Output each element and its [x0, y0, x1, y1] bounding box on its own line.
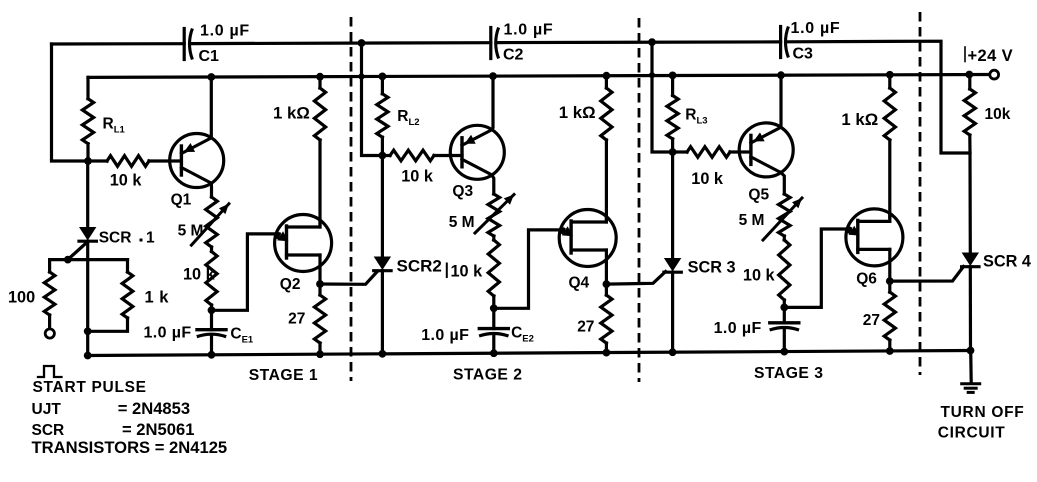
resistor 1k stage 2 [605, 76, 608, 88]
svg-text:27: 27 [577, 319, 594, 336]
svg-text:STAGE 1: STAGE 1 [249, 367, 318, 384]
svg-text:RL2: RL2 [397, 108, 419, 128]
label +24 V [964, 47, 966, 62]
svg-text:C3: C3 [793, 45, 814, 62]
resistor 10k emitter stage 3 [783, 236, 786, 240]
node Q1 base junction [84, 157, 92, 165]
resistor 1k gate stage 1 [126, 260, 129, 272]
svg-text:1 kΩ: 1 kΩ [841, 110, 878, 129]
node emitter RC junction stage 2 [490, 304, 498, 312]
wire SCR2 anode descender [362, 43, 381, 156]
wire crossover blob stage2 [358, 73, 364, 79]
transistor Q3 (PNP 2N4125) [450, 125, 504, 179]
svg-text:SCR2: SCR2 [397, 257, 442, 276]
wire Q5 emitter to rail [779, 75, 782, 127]
wire Q2 B1 to SCR2 gate [320, 272, 377, 285]
wire Q4 B1 to SCR3 gate [606, 272, 665, 285]
SCR 4 (turn-off) [962, 253, 979, 267]
wire SCR4 anode [968, 153, 971, 253]
resistor 10k emitter stage 1 [210, 247, 213, 252]
svg-text:5 M: 5 M [739, 212, 765, 229]
capacitor C2 [489, 28, 492, 59]
wire main +24V rail [88, 75, 990, 78]
potentiometer 5M arrow stage 3 [763, 198, 802, 240]
potentiometer 5M stage 1 [206, 197, 218, 247]
wire Q1 emitter to rail [210, 77, 213, 138]
svg-text:Q6: Q6 [856, 271, 877, 288]
wire to Q4 emitter [494, 230, 564, 308]
node emitter RC junction stage 3 [780, 304, 788, 312]
svg-text:27: 27 [863, 312, 880, 329]
svg-text:SCR: SCR [32, 422, 65, 439]
potentiometer 5M arrow stage 1 [191, 204, 229, 245]
node emitter RC junction stage 1 [208, 306, 216, 314]
node Q6 B1 junction [886, 277, 894, 285]
svg-text:Q1: Q1 [171, 191, 192, 208]
node Q1 emitter rail junction [207, 73, 215, 81]
resistor 27 stage 1 [318, 284, 321, 295]
svg-text:1.0 µF: 1.0 µF [714, 320, 762, 337]
svg-text:1 kΩ: 1 kΩ [559, 103, 596, 122]
wire SCR3 anode descender [652, 42, 670, 152]
node 10k rail junction turn-off [965, 71, 973, 79]
svg-text:10 k: 10 k [451, 262, 484, 280]
wire left vertical from top line to Q1 base node [52, 44, 87, 161]
svg-text:1 kΩ: 1 kΩ [273, 103, 310, 122]
capacitor CE1 [210, 310, 213, 329]
svg-text:SCR 3: SCR 3 [688, 258, 736, 276]
wire to Q2 emitter [212, 234, 280, 310]
node Q3 base junction [379, 152, 387, 160]
node 27 bottom rail junction stage 1 [316, 350, 324, 358]
node CE3 bottom rail junction [780, 348, 788, 356]
transistor Q1 (PNP 2N4125) [170, 134, 224, 188]
node 27 bottom rail junction stage 2 [603, 349, 611, 357]
terminal +24V open circle [990, 70, 999, 79]
svg-text:10 k: 10 k [691, 170, 724, 188]
node SCR4 cathode rail junction [967, 347, 975, 355]
svg-text:1: 1 [146, 230, 155, 247]
resistor 1k stage 1 [318, 77, 321, 88]
wire SCR1 gate bus [50, 258, 128, 261]
svg-text:= 2N5061: = 2N5061 [122, 420, 194, 439]
wire Q3 collector down [492, 175, 494, 194]
resistor 27 stage 3 [888, 281, 891, 292]
node Q2 B1 junction [316, 280, 324, 288]
svg-text:1 k: 1 k [145, 289, 170, 307]
resistor RL1 [86, 77, 89, 98]
node CE2 bottom rail junction [490, 349, 498, 357]
svg-text:C2: C2 [503, 46, 524, 63]
dashed separator stage 3 / turn-off [919, 12, 922, 375]
wire SCR4 cathode to ground [969, 351, 973, 383]
svg-text:START PULSE: START PULSE [33, 379, 147, 396]
wire top coupling line segment C (C2 to C3, SCR3 anode node) [499, 40, 781, 44]
svg-text:10 k: 10 k [743, 267, 776, 285]
svg-text:1.0 µF: 1.0 µF [421, 327, 469, 344]
svg-text:SCR 4: SCR 4 [983, 252, 1031, 270]
svg-text:5 M: 5 M [449, 214, 475, 231]
resistor 1k stage 3 [888, 75, 891, 88]
svg-text:RL3: RL3 [685, 106, 707, 126]
node SCR1 gate junction [64, 256, 72, 264]
svg-text:1.0 µF: 1.0 µF [504, 21, 554, 38]
UJT Q4 (2N4853) [559, 210, 616, 267]
svg-text:STAGE 3: STAGE 3 [754, 365, 823, 382]
svg-text:5 M: 5 M [178, 222, 204, 239]
wire top coupling line segment A (SCR1 anode to C1) [52, 42, 185, 45]
resistor RL3 [671, 75, 674, 95]
capacitor C3 [779, 27, 782, 58]
svg-text:C1: C1 [199, 48, 220, 65]
svg-text:STAGE 2: STAGE 2 [453, 366, 522, 383]
wire SCR1 gate [68, 242, 88, 260]
node 1k rail junction stage 2 [603, 72, 611, 80]
SCR 3 (2N5061) [671, 152, 674, 258]
wire Q6 B1 to SCR4 gate [890, 267, 964, 282]
SCR 1 (2N5061) [86, 161, 89, 227]
svg-text:CE2: CE2 [511, 324, 534, 344]
resistor RL2 [381, 76, 384, 93]
svg-text:Q2: Q2 [280, 276, 301, 293]
start pulse waveform glyph [38, 366, 62, 377]
wire bottom ground rail [88, 351, 971, 356]
svg-text:1.0 µF: 1.0 µF [144, 324, 192, 341]
svg-text:+24 V: +24 V [968, 47, 1014, 65]
potentiometer 5M stage 2 [488, 194, 500, 236]
ground symbol [962, 382, 980, 385]
node RL3 rail junction [669, 72, 677, 80]
node SCR2 cathode rail junction [379, 350, 387, 358]
node Q5 base junction [669, 148, 677, 156]
resistor 100 (start pulse) [48, 260, 51, 272]
SCR 2 (2N5061) [381, 156, 384, 257]
node 1k rail junction stage 3 [886, 71, 894, 79]
wire crossover blob stage3 [649, 72, 655, 78]
potentiometer 5M arrow stage 2 [475, 195, 514, 234]
resistor 10k base stage 2 [382, 154, 390, 157]
svg-text:27: 27 [288, 310, 305, 327]
svg-text:Q3: Q3 [452, 183, 473, 200]
wire to Q6 emitter [784, 229, 850, 307]
capacitor CE3 [783, 307, 786, 322]
node SCR1 cathode rail junction [84, 352, 92, 360]
node CE1 bottom rail junction [208, 351, 216, 359]
node 27 bottom rail junction stage 3 [886, 347, 894, 355]
capacitor CE2 [492, 308, 495, 328]
terminal start pulse input [45, 329, 54, 338]
svg-text:TURN OFF: TURN OFF [941, 404, 1025, 421]
wire top coupling line segment D (C3 to turn-off circuit) [788, 41, 969, 153]
svg-text:100: 100 [8, 289, 35, 307]
svg-text:Q4: Q4 [569, 274, 590, 291]
node top line / SCR3 anode descender junction [648, 38, 656, 46]
wire Q5 collector down [781, 173, 785, 195]
svg-text:10 k: 10 k [183, 265, 216, 283]
potentiometer 5M stage 3 [779, 194, 791, 236]
transistor Q5 (PNP 2N4125) [739, 123, 793, 177]
node 1k rail junction stage 1 [316, 73, 324, 81]
wire Q1 collector down [210, 183, 213, 197]
resistor 10k base stage 3 [673, 150, 687, 153]
wire top coupling line segment B (C1 to C2, SCR2 anode node) [192, 41, 490, 45]
node Q4 B1 junction [603, 280, 611, 288]
svg-text:CIRCUIT: CIRCUIT [938, 424, 1006, 441]
node Q5 emitter rail junction [777, 71, 785, 79]
UJT Q2 (2N4853) [275, 215, 332, 272]
node RL2 rail junction [379, 73, 387, 81]
svg-text:Q5: Q5 [748, 187, 769, 204]
node top line / SCR2 anode descender junction [358, 39, 366, 47]
resistor 10k emitter stage 2 [492, 236, 495, 240]
svg-text:10 k: 10 k [110, 172, 143, 190]
svg-text:1.0 µF: 1.0 µF [200, 22, 250, 39]
capacitor C1 [183, 29, 186, 60]
svg-text:= 2N4853: = 2N4853 [118, 399, 190, 418]
node Q3 emitter rail junction [489, 72, 497, 80]
resistor 10k turn-off [968, 75, 971, 90]
svg-text:1.0 µF: 1.0 µF [791, 20, 841, 37]
UJT Q6 (2N4853) [846, 209, 903, 266]
resistor 27 stage 2 [605, 284, 608, 295]
svg-text:UJT: UJT [32, 401, 62, 418]
resistor 10k base stage 1 [88, 159, 107, 162]
svg-text:CE1: CE1 [230, 326, 254, 346]
svg-text:TRANSISTORS = 2N4125: TRANSISTORS = 2N4125 [32, 438, 228, 457]
node SCR1 cathode / 1k junction [84, 327, 92, 335]
dashed separator stage 1 / stage 2 [350, 17, 353, 381]
svg-text:SCR: SCR [99, 230, 132, 247]
wire Q3 emitter to rail [492, 76, 493, 130]
node SCR3 cathode rail junction [669, 348, 677, 356]
dashed separator stage 2 / stage 3 [638, 18, 641, 382]
svg-text:RL1: RL1 [103, 116, 126, 136]
svg-text:10k: 10k [985, 106, 1011, 123]
svg-text:10 k: 10 k [401, 168, 434, 186]
